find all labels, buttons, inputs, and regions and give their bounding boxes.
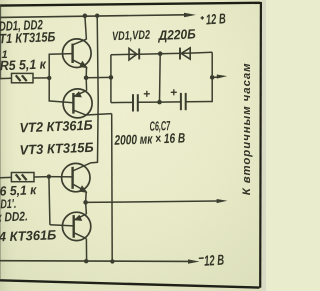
- wire VD1 to mid node: [139, 53, 160, 56]
- wire VT3 collector riser: [97, 16, 98, 163]
- arrow output 2: [86, 201, 217, 202]
- resistor R5 hatch 1: [16, 75, 21, 81]
- capacitor C7: [171, 89, 186, 110]
- wire diode branch vertical: [110, 55, 112, 103]
- wire +12V rail: [0, 15, 185, 18]
- wire diode row left: [111, 53, 139, 56]
- wire VT1 base: [49, 53, 73, 56]
- resistor R5 hatch 2: [22, 75, 27, 81]
- wire capacitor row left: [111, 101, 133, 103]
- node stage1 emitters: [84, 76, 89, 81]
- label -12 V minus sign: [199, 257, 204, 259]
- resistor R6 right lead: [34, 176, 50, 178]
- wire -12V rail: [0, 260, 189, 263]
- arrow output 1: [212, 76, 218, 78]
- left scan edge: [0, 5, 2, 78]
- wire VT1 emitter to node: [85, 67, 87, 78]
- node capacitor mid: [157, 100, 162, 105]
- wire VT3 emitter to node: [85, 192, 88, 203]
- node stage2 emitters: [83, 200, 88, 205]
- node output 1: [210, 75, 215, 80]
- wire VT2 collector horizontal: [86, 114, 112, 115]
- resistor R6 left lead: [0, 176, 11, 178]
- diode VD1: [129, 48, 139, 60]
- node base junction stage1: [47, 76, 51, 80]
- wire VT1 collector riser: [85, 16, 87, 40]
- wire mid node to VD2: [160, 52, 190, 55]
- node -12 rail VT4: [84, 259, 88, 263]
- wire mid stub (diode mid to cap mid): [159, 54, 162, 102]
- label +12 V plus sign: [201, 16, 204, 19]
- wire C7 to right corner: [186, 101, 213, 103]
- frame bottom border: [0, 280, 260, 287]
- wire VT2 collector drop: [111, 114, 114, 262]
- frame top border: [0, 3, 261, 6]
- frame right margin strip: [262, 0, 266, 291]
- resistor R6 body: [11, 173, 34, 182]
- transistor VT3 KT315B (npn): [62, 162, 98, 193]
- arrow +12V: [184, 13, 196, 17]
- wire VT4 collector drop: [85, 239, 87, 262]
- wire VT4 emitter from node: [85, 203, 88, 215]
- capacitor C6: [133, 91, 150, 112]
- transistor VT4 KT361B (pnp): [62, 212, 90, 240]
- arrow -12V: [188, 259, 200, 263]
- node base junction stage2: [47, 174, 51, 178]
- resistor R5 right lead: [33, 77, 50, 79]
- wire VT3 base: [49, 176, 73, 178]
- wire VT2 emitter from node: [85, 78, 87, 91]
- frame right border: [259, 2, 262, 288]
- wire VT2 base: [49, 101, 74, 103]
- transistor VT2 KT361B (pnp): [63, 89, 92, 118]
- node on +12 rail (VT3 riser): [95, 14, 99, 18]
- wire right vertical: [211, 52, 213, 102]
- wire C6 to mid node: [138, 101, 160, 103]
- wire stage2 base vertical: [49, 177, 50, 225]
- wire VT4 base: [50, 225, 74, 226]
- node on +12 rail (VT1 collector): [83, 14, 88, 19]
- transistor VT1 KT315B (npn): [63, 39, 92, 68]
- node -12 rail VT2 collector: [110, 259, 114, 263]
- resistor R5 left lead: [0, 77, 12, 79]
- resistor R6 hatch 2: [22, 174, 27, 180]
- resistor R5 body: [12, 73, 34, 82]
- node diode mid: [158, 51, 163, 56]
- wire stage1 output: [86, 76, 111, 78]
- resistor R6 hatch 1: [16, 174, 21, 180]
- diode VD2: [180, 48, 190, 60]
- left edge scan shading: [0, 0, 16, 291]
- wire stage1 base vertical: [48, 54, 50, 101]
- wire mid node to C7: [160, 101, 181, 103]
- wire VD2 to right corner: [190, 51, 212, 54]
- node diode branch tap: [109, 75, 114, 80]
